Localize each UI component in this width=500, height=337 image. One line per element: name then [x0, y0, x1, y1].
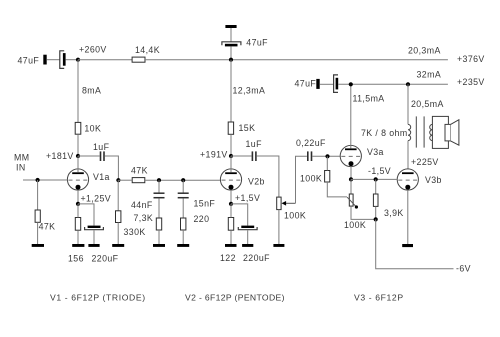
V1a anode lead	[77, 156, 79, 172]
wire node to 220uF	[78, 204, 94, 226]
wire 220uF to ground	[93, 230, 95, 244]
V3a anode lead	[350, 84, 352, 148]
ground (220)	[177, 244, 189, 247]
svg-text:V3a: V3a	[367, 147, 384, 157]
svg-text:+376V: +376V	[457, 54, 485, 64]
wire trimmer to -6V node	[351, 206, 376, 219]
svg-text:1uF: 1uF	[246, 139, 263, 149]
wire 15nF to 220	[182, 198, 184, 218]
resistor 330K	[116, 211, 121, 223]
resistor 100K (V3a grid leak)	[325, 171, 330, 183]
resistor 3,9K	[373, 194, 378, 206]
svg-text:20,3mA: 20,3mA	[408, 46, 441, 56]
capacitor C 47uF (electrolytic, horizontal)	[60, 51, 66, 69]
wire 100K to trimmer wiper	[327, 182, 347, 197]
V3a cathode	[349, 161, 354, 166]
wire 156 to ground	[77, 230, 79, 244]
svg-text:V2 - 6F12P (PENTODE): V2 - 6F12P (PENTODE)	[185, 292, 285, 302]
svg-text:14,4K: 14,4K	[135, 45, 160, 55]
triode V1a envelope	[67, 169, 88, 190]
triode V3b envelope	[397, 169, 418, 190]
V3b cathode	[405, 185, 410, 190]
V2b grid (dashed)	[222, 179, 242, 181]
wire rail node down (12,3mA)	[230, 60, 232, 122]
wire node +181V to 1uF	[78, 155, 100, 157]
node +191V	[229, 154, 233, 158]
ground (input 47K)	[32, 244, 44, 247]
svg-text:47uF: 47uF	[18, 55, 40, 65]
wire node to 47K	[118, 179, 132, 181]
svg-text:MM: MM	[14, 153, 29, 163]
resistor 156	[75, 218, 80, 231]
svg-text:+235V: +235V	[457, 77, 485, 87]
resistor 10K	[75, 122, 81, 134]
svg-text:47uF: 47uF	[246, 37, 268, 47]
wire V3a cathode to V3b grid	[351, 178, 397, 180]
svg-text:8mA: 8mA	[82, 86, 101, 96]
wire 220 to ground	[182, 230, 184, 244]
V1a cathode lead	[77, 190, 79, 204]
svg-text:44nF: 44nF	[131, 200, 153, 210]
node 15nF	[181, 178, 185, 182]
svg-text:7,3K: 7,3K	[134, 213, 154, 223]
svg-text:V3 - 6F12P: V3 - 6F12P	[354, 292, 404, 302]
svg-text:+260V: +260V	[79, 45, 107, 55]
svg-text:330K: 330K	[124, 227, 146, 237]
V3a cathode lead	[350, 166, 352, 179]
wire 1uF to grid node	[105, 156, 119, 180]
wire 15K to node +191V	[230, 134, 232, 156]
node OPT primary	[406, 82, 410, 86]
node input/47K	[36, 178, 40, 182]
svg-text:V3b: V3b	[425, 175, 442, 185]
wire 330K down	[117, 180, 119, 211]
wire node to 122	[230, 204, 232, 218]
svg-text:V1a: V1a	[93, 172, 110, 182]
svg-text:156: 156	[68, 253, 84, 263]
wire to -6V	[376, 219, 454, 268]
wire pot to ground	[278, 210, 280, 244]
wire ground to cap	[320, 83, 334, 85]
resistor 47K (input)	[35, 210, 40, 222]
svg-text:7K / 8 ohm: 7K / 8 ohm	[361, 128, 408, 138]
svg-text:3,9K: 3,9K	[384, 208, 404, 218]
wire 220uF to ground	[247, 230, 249, 244]
node +260V	[76, 58, 80, 62]
wire input to V1a grid	[23, 179, 67, 181]
resistor 220	[181, 218, 186, 230]
node (rail / V2 feed)	[229, 58, 233, 62]
svg-text:12,3mA: 12,3mA	[233, 85, 266, 95]
trimmer 100K	[347, 194, 358, 209]
capacitor 0,22uF	[308, 151, 312, 161]
wire node to 3,9K	[375, 179, 377, 194]
wire node to R 14,4K	[78, 59, 132, 61]
wire 44nF to 7,3K	[158, 198, 160, 218]
resistor 7,3K	[156, 218, 161, 230]
svg-text:-6V: -6V	[456, 263, 471, 273]
wire node to OPT primary	[407, 84, 409, 124]
wire 1uF to pot	[257, 156, 279, 197]
svg-text:220uF: 220uF	[243, 253, 270, 263]
ground (pot)	[273, 244, 284, 247]
svg-text:47K: 47K	[39, 221, 56, 231]
wire 122 to ground	[230, 230, 232, 244]
svg-text:100K: 100K	[300, 174, 322, 184]
capacitor 47uF (electrolytic, rail)	[334, 75, 339, 93]
wire 330K to ground	[117, 223, 119, 245]
node 3,9K top	[374, 177, 378, 181]
node +1,5V	[229, 202, 233, 206]
svg-text:V1 - 6F12P (TRIODE): V1 - 6F12P (TRIODE)	[50, 292, 146, 302]
svg-text:1uF: 1uF	[93, 142, 110, 152]
svg-text:15nF: 15nF	[194, 199, 216, 209]
node +181V	[76, 154, 80, 158]
ground (top 47uF)	[225, 25, 236, 28]
svg-text:+225V: +225V	[411, 157, 439, 167]
svg-text:220uF: 220uF	[92, 253, 119, 263]
V3a grid (dashed)	[341, 155, 361, 157]
wire 47K to ground	[37, 222, 39, 244]
capacitor 1uF (V2)	[252, 151, 256, 161]
OPT primary winding 7K	[408, 124, 411, 140]
wire node to 100K	[326, 156, 328, 170]
svg-text:IN: IN	[16, 162, 26, 172]
wire 0,22uF to V3a grid node	[312, 155, 340, 157]
V3b grid (dashed)	[398, 179, 418, 181]
svg-text:32mA: 32mA	[417, 69, 442, 79]
V1a grid (dashed)	[69, 179, 89, 181]
node (1uF/330K/47K junction)	[116, 178, 120, 182]
ground (122)	[225, 244, 237, 247]
V2b cathode lead	[230, 190, 232, 204]
ground (47uF rail cap, vertical bar)	[316, 79, 319, 89]
svg-text:-1,5V: -1,5V	[368, 166, 391, 176]
node V3a cathode	[349, 177, 353, 181]
wire cap to rail	[338, 83, 448, 85]
svg-text:220: 220	[194, 214, 210, 224]
node V3a anode	[349, 82, 353, 86]
ground (input 47uF, vertical bar)	[43, 55, 46, 65]
wire 10K to node +181V	[77, 134, 79, 156]
triode V3a envelope	[340, 145, 361, 166]
wire node to 220uF (V2)	[231, 204, 248, 226]
resistor 15K	[228, 122, 233, 134]
svg-text:10K: 10K	[84, 124, 101, 134]
svg-text:11,5mA: 11,5mA	[353, 94, 385, 104]
capacitor 220uF (V1, electrolytic)	[85, 226, 104, 230]
svg-text:0,22uF: 0,22uF	[296, 138, 326, 148]
svg-text:47K: 47K	[131, 166, 148, 176]
V1a anode plate	[72, 172, 84, 174]
V3b cathode lead	[407, 190, 409, 244]
wire cap to node	[230, 46, 232, 59]
svg-text:+1,5V: +1,5V	[235, 193, 260, 203]
svg-text:+1,25V: +1,25V	[81, 193, 112, 203]
wire OPT primary to V3b anode	[407, 141, 409, 169]
svg-text:20,5mA: 20,5mA	[411, 99, 444, 109]
capacitor 220uF (V2, electrolytic)	[238, 226, 257, 230]
wire C1 to node +260V	[66, 59, 78, 61]
svg-text:122: 122	[220, 253, 236, 263]
wire node to 44nF	[158, 180, 160, 192]
wire node to trimmer	[350, 179, 352, 194]
resistor 14,4K	[132, 57, 145, 62]
wire node to 15nF	[182, 180, 184, 192]
V3a anode plate	[345, 148, 357, 150]
node +1,25V	[76, 202, 80, 206]
resistor 47K (series grid)	[132, 178, 145, 183]
svg-text:V2b: V2b	[248, 177, 265, 187]
wire ground to cap	[230, 28, 232, 42]
potentiometer 100K (volume)	[277, 197, 296, 210]
V2b anode plate	[225, 172, 237, 174]
capacitor 15nF	[178, 193, 189, 198]
wire node to 47K	[37, 180, 39, 210]
svg-text:+181V: +181V	[46, 151, 74, 161]
ground (220uF V2)	[242, 244, 253, 247]
ground (220uF V1)	[88, 244, 99, 247]
capacitor 44nF	[154, 193, 165, 198]
V2b anode lead	[230, 156, 232, 172]
wire node +191V to 1uF	[231, 155, 252, 157]
wire R 14,4K to rail end	[145, 59, 448, 61]
wire wiper to 0,22uF	[296, 156, 307, 203]
svg-text:15K: 15K	[239, 123, 256, 133]
wire node to 156	[77, 204, 79, 218]
ground (330K)	[112, 244, 124, 247]
wire 3,9K to node	[375, 206, 377, 219]
capacitor 47uF (electrolytic, vertical)	[222, 42, 241, 47]
V2b cathode	[229, 185, 234, 190]
capacitor 1uF (V1)	[101, 151, 105, 161]
wire 7,3K to ground	[158, 230, 160, 244]
svg-text:100K: 100K	[344, 220, 366, 230]
ground (7,3K)	[153, 244, 165, 247]
V1a cathode	[76, 185, 81, 190]
ground (156)	[72, 244, 84, 247]
OPT core	[416, 116, 424, 147]
node V3a grid	[325, 154, 329, 158]
svg-text:100K: 100K	[284, 211, 306, 221]
ground (V3b cathode)	[402, 244, 413, 247]
V3b anode plate	[402, 172, 414, 174]
node 44nF	[157, 178, 161, 182]
node -6V feed	[374, 217, 378, 221]
speaker	[432, 116, 459, 148]
resistor 122	[228, 218, 233, 231]
wire node +260V down (8mA)	[77, 60, 79, 123]
wire 47K to V2 grid	[145, 179, 221, 181]
wire ground to C1	[47, 59, 60, 61]
svg-text:+191V: +191V	[200, 150, 228, 160]
svg-text:47uF: 47uF	[295, 78, 317, 88]
pentode V2b envelope	[220, 169, 241, 190]
OPT secondary winding 8 ohm	[430, 124, 433, 140]
